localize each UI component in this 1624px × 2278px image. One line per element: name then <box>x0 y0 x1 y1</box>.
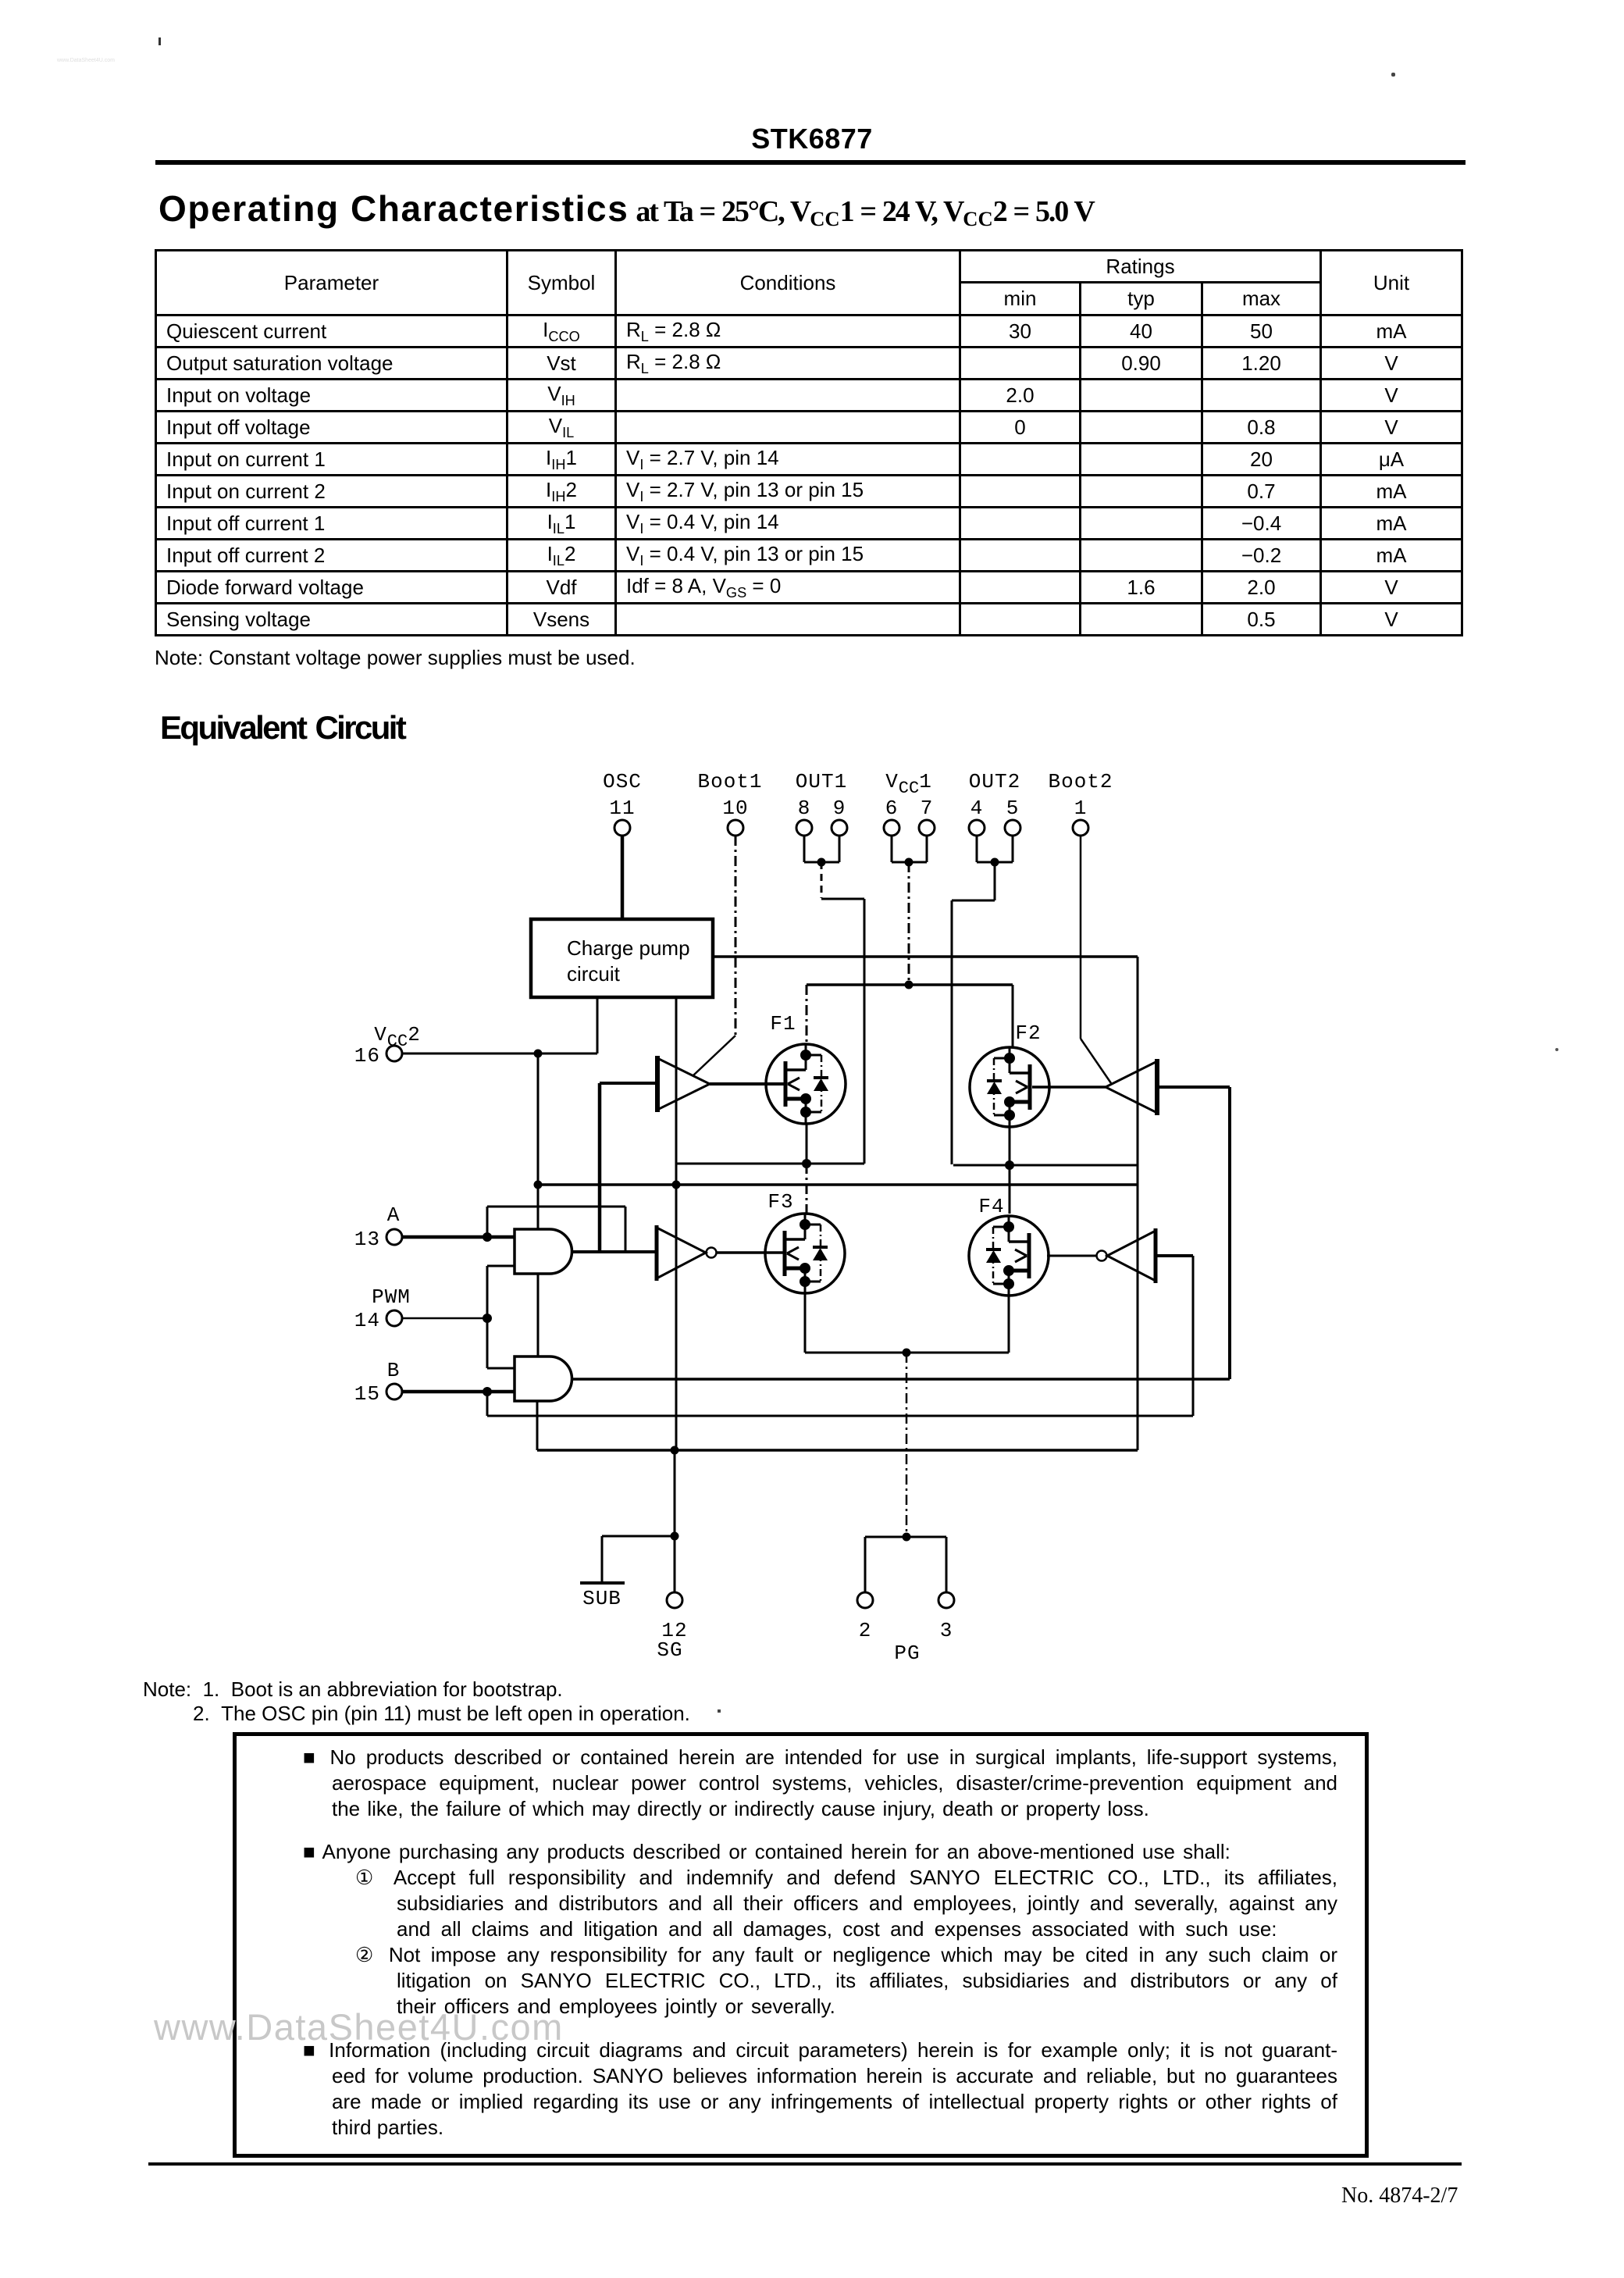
svg-text:14: 14 <box>354 1309 380 1332</box>
svg-text:7: 7 <box>921 797 934 820</box>
svg-text:F4: F4 <box>978 1195 1004 1218</box>
svg-text:OUT1: OUT1 <box>796 770 847 793</box>
svg-text:9: 9 <box>833 797 846 820</box>
svg-text:10: 10 <box>722 797 748 820</box>
svg-text:F2: F2 <box>1015 1021 1041 1045</box>
svg-text:15: 15 <box>354 1382 380 1406</box>
svg-text:6: 6 <box>885 797 899 820</box>
svg-text:OSC: OSC <box>603 770 642 793</box>
svg-text:16: 16 <box>354 1044 380 1068</box>
svg-text:VCC1: VCC1 <box>885 770 932 798</box>
svg-text:3: 3 <box>940 1619 953 1642</box>
svg-text:OUT2: OUT2 <box>969 770 1020 793</box>
svg-text:8: 8 <box>798 797 811 820</box>
svg-text:Boot2: Boot2 <box>1048 770 1113 793</box>
svg-text:F3: F3 <box>767 1190 793 1214</box>
svg-text:circuit: circuit <box>567 962 621 986</box>
svg-text:Boot1: Boot1 <box>697 770 762 793</box>
svg-text:B: B <box>387 1359 401 1382</box>
svg-text:2: 2 <box>859 1619 872 1642</box>
svg-text:5: 5 <box>1006 797 1020 820</box>
svg-text:F1: F1 <box>770 1012 796 1036</box>
svg-text:VCC2: VCC2 <box>374 1023 421 1051</box>
svg-text:1: 1 <box>1074 797 1088 820</box>
svg-text:SUB: SUB <box>582 1587 621 1610</box>
svg-text:13: 13 <box>354 1228 380 1251</box>
svg-text:11: 11 <box>609 797 635 820</box>
svg-text:PWM: PWM <box>372 1285 411 1309</box>
svg-text:4: 4 <box>970 797 984 820</box>
svg-text:SG: SG <box>657 1638 682 1662</box>
svg-text:A: A <box>387 1203 401 1227</box>
svg-text:PG: PG <box>894 1642 920 1665</box>
svg-text:Charge pump: Charge pump <box>567 936 690 960</box>
